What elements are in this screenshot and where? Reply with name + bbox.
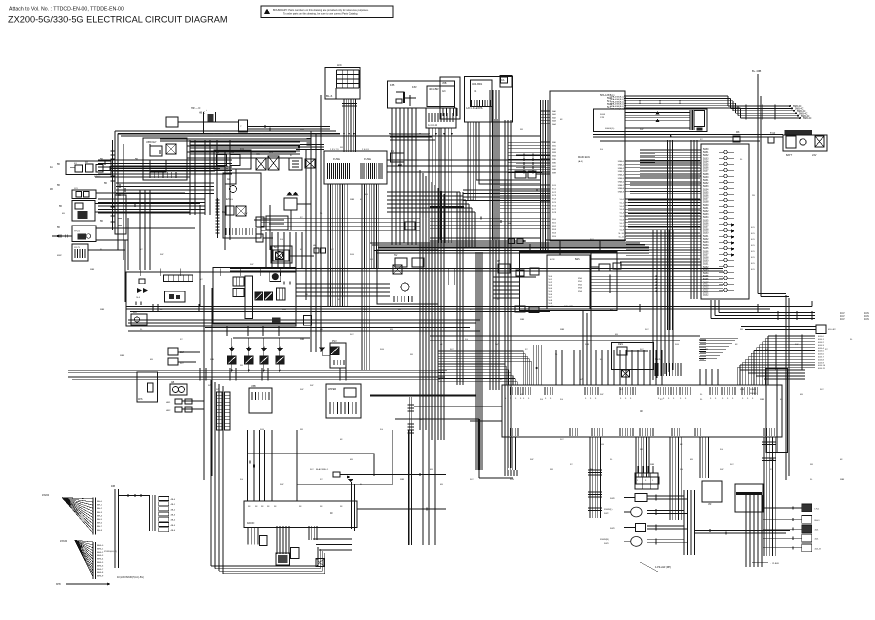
svg-text:To order parts on this drawing: To order parts on this drawing, be sure … xyxy=(283,13,358,16)
svg-text:BH6-1: BH6-1 xyxy=(97,548,104,550)
terminal left long verticals xyxy=(667,140,669,330)
svg-text:4CN: 4CN xyxy=(550,259,555,261)
svg-text:11173: 11173 xyxy=(74,247,81,249)
svg-text:BH-1: BH-1 xyxy=(97,505,103,507)
thick segment y207 xyxy=(430,206,464,208)
svg-text:5R: 5R xyxy=(240,365,243,367)
svg-text:5BR: 5BR xyxy=(400,479,405,481)
svg-text:4B-3: 4B-3 xyxy=(171,515,176,517)
small box under relay row xyxy=(225,169,236,184)
bundle under 404-BR hatchbox xyxy=(428,128,430,243)
svg-text:U5B: U5B xyxy=(442,83,447,85)
svg-text:5NB-9: 5NB-9 xyxy=(618,192,625,194)
right mid rect inner vertical xyxy=(776,369,778,453)
vertical bundle x505 xyxy=(504,120,506,468)
lamp row2 xyxy=(631,507,642,517)
pins of 404-BR1 xyxy=(471,100,473,107)
svg-text:5W9: 5W9 xyxy=(610,528,615,530)
junction dots on top bus xyxy=(186,133,188,135)
svg-text:5NB-5: 5NB-5 xyxy=(618,178,625,180)
junction ticks on top bundle xyxy=(639,95,640,96)
svg-text:BZ-1: BZ-1 xyxy=(274,247,280,249)
harness connector stack xyxy=(149,495,151,531)
svg-text:IP: IP xyxy=(290,154,293,157)
res cluster wires xyxy=(631,370,633,381)
wire row group A to terminal xyxy=(640,149,701,151)
svg-text:5R: 5R xyxy=(810,464,813,466)
svg-text:4LB-3: 4LB-3 xyxy=(818,345,825,347)
svg-text:ZX330: ZX330 xyxy=(60,540,68,543)
svg-text:5LY: 5LY xyxy=(450,349,454,351)
svg-text:5LB6: 5LB6 xyxy=(703,251,709,253)
svg-text:55W8(R): 55W8(R) xyxy=(600,539,609,541)
svg-text:5W8: 5W8 xyxy=(610,498,615,500)
box connector hatch under 404-BR xyxy=(426,108,456,128)
battery feed lines xyxy=(593,134,783,136)
svg-text:5LB: 5LB xyxy=(510,479,514,481)
ticks on bundle F xyxy=(762,441,776,443)
svg-text:5BR: 5BR xyxy=(90,269,95,271)
relay comp row1 xyxy=(635,494,647,502)
component 266,216 xyxy=(266,216,288,230)
main horizontal bus y268 xyxy=(230,268,723,270)
svg-text:5BR: 5BR xyxy=(300,339,305,341)
svg-text:5LB8: 5LB8 xyxy=(703,202,709,204)
svg-text:MSP: MSP xyxy=(57,255,62,257)
fuse panel pins group B xyxy=(360,163,362,179)
svg-text:5BR: 5BR xyxy=(560,329,565,331)
svg-text:5L-1: 5L-1 xyxy=(620,202,625,204)
wire bundle below 467 box xyxy=(489,119,491,240)
svg-text:ZX330(H,LC): ZX330(H,LC) xyxy=(104,551,117,553)
center vertical bundle x420 xyxy=(419,170,421,430)
svg-text:5LB0: 5LB0 xyxy=(703,233,709,235)
L corner rows feeding cab box group2 xyxy=(438,350,523,352)
svg-text:VR: VR xyxy=(708,503,712,506)
svg-text:5BR: 5BR xyxy=(585,344,590,346)
speaker dark box xyxy=(276,553,290,565)
svg-text:5G: 5G xyxy=(240,479,243,481)
svg-text:Attach to Vol. No. : TTDCD-EN-: Attach to Vol. No. : TTDCD-EN-00, TTDDE-… xyxy=(9,7,124,13)
wires into fuse panel left xyxy=(300,144,324,146)
wires stepping right to alternator labels xyxy=(728,105,790,107)
svg-text:F/B: F/B xyxy=(390,83,394,87)
pump left components xyxy=(139,279,145,284)
svg-text:5L10: 5L10 xyxy=(549,306,555,308)
radio pin group B xyxy=(276,526,278,554)
small box bottom right of pump xyxy=(304,316,312,326)
svg-text:5B: 5B xyxy=(104,183,107,185)
svg-text:4DL-B: 4DL-B xyxy=(815,548,822,550)
earth under blackbu comp xyxy=(349,479,353,482)
wires top center down to thick bar xyxy=(403,108,405,243)
svg-text:4B-4: 4B-4 xyxy=(171,520,176,522)
svg-text:5NB-6: 5NB-6 xyxy=(618,181,625,183)
box 404-BR1 outer xyxy=(465,77,513,123)
svg-text:5R: 5R xyxy=(260,145,263,147)
x comp below res xyxy=(622,370,630,377)
svg-text:5LY: 5LY xyxy=(730,464,734,466)
pump circle comp xyxy=(270,272,281,282)
svg-text:RADIO: RADIO xyxy=(247,522,254,525)
svg-text:5L-3: 5L-3 xyxy=(620,209,625,211)
wire row group D to terminal xyxy=(626,235,701,237)
small comp 10A cluster xyxy=(168,348,178,355)
svg-text:4F: 4F xyxy=(640,409,643,413)
svg-text:BH6-0: BH6-0 xyxy=(97,545,104,547)
svg-text:RES: RES xyxy=(618,343,623,346)
lamp row4 xyxy=(631,537,642,547)
wiper motor box xyxy=(326,384,361,418)
vertical bundle x477 dark xyxy=(475,252,477,470)
svg-text:W/S: W/S xyxy=(138,398,143,401)
feeder group3 with comp xyxy=(533,345,535,385)
wire bundle ECU right top xyxy=(624,95,728,97)
svg-text:5G: 5G xyxy=(380,429,383,431)
wire bundle below BL-6 xyxy=(343,99,345,152)
svg-text:55W8(L): 55W8(L) xyxy=(604,509,613,511)
right bottom connector boxes xyxy=(802,504,812,512)
left cluster extra wires xyxy=(190,141,300,143)
bus y268 risers to pump box xyxy=(139,269,141,277)
svg-text:4LB-1: 4LB-1 xyxy=(818,339,825,341)
svg-text:HB IC: HB IC xyxy=(199,113,205,115)
nested loop bottoms xyxy=(211,565,318,567)
upper fan connector xyxy=(92,498,94,535)
pump dark relay N2 xyxy=(265,292,273,300)
svg-text:5LB7: 5LB7 xyxy=(703,227,709,229)
bundle below cab C xyxy=(635,437,637,477)
ticks on bus y370 xyxy=(199,368,201,381)
bundle below cab A xyxy=(504,437,506,470)
svg-text:BATT: BATT xyxy=(786,154,793,157)
buzzer BZ-1 xyxy=(273,250,289,261)
svg-text:BH-6: BH-6 xyxy=(97,523,103,525)
nested loop right risers xyxy=(317,547,319,566)
lower fan connector xyxy=(92,542,94,579)
arrow connector y241 xyxy=(430,240,526,242)
svg-text:5LY: 5LY xyxy=(820,389,824,391)
svg-text:5LB: 5LB xyxy=(380,349,384,351)
junction dots vertical x311 xyxy=(310,145,311,146)
svg-text:5LB: 5LB xyxy=(675,344,679,346)
terminal strip circle column xyxy=(724,150,727,153)
svg-text:5PA-4SB(B-L): 5PA-4SB(B-L) xyxy=(610,108,624,111)
relay box RY2 with bus bar xyxy=(735,484,763,512)
radio right wires xyxy=(357,508,446,510)
svg-text:5G: 5G xyxy=(270,249,273,251)
svg-text:5LB3: 5LB3 xyxy=(703,242,709,244)
svg-text:BH-2: BH-2 xyxy=(97,508,103,510)
svg-text:5LB: 5LB xyxy=(350,254,354,256)
SUB ECU right wires xyxy=(590,266,599,268)
svg-text:5LB2: 5LB2 xyxy=(703,211,709,213)
svg-text:5BR: 5BR xyxy=(840,479,845,481)
ECU left pin stubs xyxy=(540,110,550,112)
svg-text:5G: 5G xyxy=(720,449,723,451)
sub ecu bottom connectors xyxy=(515,306,525,312)
harness lower fan xyxy=(75,540,93,542)
junction ticks on bus y307 xyxy=(152,304,154,312)
svg-text:HN2: HN2 xyxy=(166,410,171,412)
svg-text:5L-0: 5L-0 xyxy=(620,199,625,201)
svg-text:5LB: 5LB xyxy=(770,459,774,461)
svg-text:5LB: 5LB xyxy=(600,444,604,446)
svg-text:SV: SV xyxy=(394,254,398,257)
svg-text:5LB7: 5LB7 xyxy=(703,171,709,173)
svg-text:4LB-8: 4LB-8 xyxy=(818,359,825,361)
tick hatches on left verticals xyxy=(111,150,115,152)
junction dots on major buses xyxy=(239,268,241,270)
staircase rows group1 xyxy=(719,312,815,314)
inline connector pair y173 xyxy=(515,171,526,178)
wires below fuse panel xyxy=(327,184,329,208)
cab harness main box xyxy=(502,385,782,437)
svg-text:5BR: 5BR xyxy=(520,319,525,321)
svg-text:4LB-6: 4LB-6 xyxy=(818,354,825,356)
left edge verticals xyxy=(229,140,231,240)
upper left boxes 440,77 xyxy=(440,77,460,119)
pump tall strip xyxy=(245,276,253,319)
svg-text:5R: 5R xyxy=(640,449,643,451)
svg-text:5LB3: 5LB3 xyxy=(703,186,709,188)
svg-text:5LB5: 5LB5 xyxy=(703,248,709,250)
nested loop left verticals xyxy=(210,380,212,566)
fusible link box xyxy=(594,109,708,131)
svg-text:5LB2: 5LB2 xyxy=(703,155,709,157)
svg-text:PSV: PSV xyxy=(332,341,337,343)
lamp wire pairs to bundle xyxy=(647,495,684,497)
svg-text:HN1: HN1 xyxy=(166,402,171,404)
ladder connector column B xyxy=(225,392,231,430)
line y338 above solenoids xyxy=(233,337,310,339)
bus lines y320 xyxy=(128,319,480,321)
engine control box xyxy=(223,173,261,238)
verticals x362 to bus xyxy=(361,268,363,370)
wires below solenoids xyxy=(231,364,233,373)
svg-text:5NB-8: 5NB-8 xyxy=(618,188,625,190)
wire row group C to terminal xyxy=(628,199,701,201)
svg-text:5LB1: 5LB1 xyxy=(703,208,709,210)
wires above cab box from staircase xyxy=(699,369,701,385)
svg-text:U5B: U5B xyxy=(251,385,256,388)
long vertical bus right B+ xyxy=(757,74,759,294)
verticals between ecu and sub ecu xyxy=(529,244,531,250)
svg-text:5B: 5B xyxy=(57,227,60,229)
key line verticals x-204 upper xyxy=(199,205,201,306)
engine box pin hatch xyxy=(225,228,227,235)
svg-text:5LY: 5LY xyxy=(470,479,474,481)
svg-text:5LB4: 5LB4 xyxy=(703,189,709,191)
stepped risers right of radio xyxy=(351,482,353,529)
key switch pins xyxy=(149,172,151,178)
horizontal bus y370 xyxy=(68,369,447,371)
thick bar y395 xyxy=(370,395,476,397)
B+ corner to x786 xyxy=(758,293,786,295)
svg-text:5MB-4C: 5MB-4C xyxy=(803,118,812,120)
svg-text:5LB5: 5LB5 xyxy=(600,114,606,116)
center verticals 270-300 xyxy=(265,232,267,268)
L corner rows feeding cab box group1 xyxy=(438,363,505,365)
svg-text:5L-6: 5L-6 xyxy=(620,219,625,221)
mid verticals x311-321 xyxy=(310,131,312,352)
battery box xyxy=(783,135,827,151)
svg-text:5NB-3: 5NB-3 xyxy=(618,171,625,173)
relay right of sub ecu xyxy=(599,264,610,271)
svg-text:(A-5): (A-5) xyxy=(578,160,583,163)
svg-text:4B: 4B xyxy=(50,189,53,191)
key switch box xyxy=(143,138,187,180)
box E MSP xyxy=(72,244,88,261)
connector bundle bottom of terminal xyxy=(654,363,656,376)
svg-text:5BR: 5BR xyxy=(740,389,745,391)
L wire y419 step xyxy=(395,418,479,420)
svg-text:5LB2: 5LB2 xyxy=(703,267,709,269)
staircase rows group2 xyxy=(768,335,815,337)
x-box left of fuse panel xyxy=(305,159,315,168)
svg-text:4LB-10: 4LB-10 xyxy=(818,365,826,367)
radio pin group A xyxy=(247,528,249,545)
svg-text:5LB: 5LB xyxy=(260,429,264,431)
svg-text:BH6-5: BH6-5 xyxy=(97,562,104,564)
thick frame harness bar xyxy=(378,246,649,248)
svg-text:A-B C-D+E/MHL: A-B C-D+E/MHL xyxy=(466,107,484,110)
hatch column x700 xyxy=(699,339,706,341)
svg-text:5LY: 5LY xyxy=(310,469,314,471)
ECU right wire rows mid xyxy=(625,160,700,162)
pump top strip box xyxy=(163,275,192,282)
svg-text:5LB: 5LB xyxy=(700,359,704,361)
svg-text:5LB1: 5LB1 xyxy=(703,264,709,266)
wires below BR1 xyxy=(467,122,469,200)
svg-text:MAIN ECU: MAIN ECU xyxy=(578,156,590,159)
junction dots x490 xyxy=(492,129,493,130)
fuse panel pins group A xyxy=(327,163,329,179)
verticals x583-590 xyxy=(582,311,584,385)
harness parallel lines xyxy=(370,242,640,244)
svg-text:5LB0: 5LB0 xyxy=(703,149,709,151)
stepped wires right bottom xyxy=(740,369,805,371)
hatch ticks on x309 xyxy=(307,138,312,140)
wire row group E to terminal xyxy=(620,261,701,263)
svg-text:4LB-7: 4LB-7 xyxy=(818,357,825,359)
svg-text:M/O: M/O xyxy=(133,312,137,314)
vertical pair x409 xyxy=(409,397,411,545)
terminal strip outer box xyxy=(701,144,749,299)
svg-text:5LB3: 5LB3 xyxy=(703,270,709,272)
svg-text:5G: 5G xyxy=(680,469,683,471)
svg-text:5AE 5NB: 5AE 5NB xyxy=(564,305,574,308)
vertical bundle x457 xyxy=(456,192,458,385)
svg-text:5LB7: 5LB7 xyxy=(703,254,709,256)
svg-text:5LB4: 5LB4 xyxy=(703,161,709,163)
horn connectors xyxy=(175,399,182,404)
svg-text:5LB5: 5LB5 xyxy=(703,192,709,194)
upper small box 500,75 xyxy=(500,76,512,88)
pump hatch box pair xyxy=(233,277,244,286)
warning note box xyxy=(261,6,393,18)
svg-text:4LB-4: 4LB-4 xyxy=(818,348,825,350)
SUB ECU outer box xyxy=(520,251,618,311)
svg-text:5L-9: 5L-9 xyxy=(620,230,625,232)
vertical bundle x490 xyxy=(489,90,491,390)
svg-text:TP-01: TP-01 xyxy=(74,231,81,233)
ECU main block xyxy=(550,91,625,241)
svg-text:5LY: 5LY xyxy=(180,363,184,365)
svg-text:5L-8: 5L-8 xyxy=(620,226,625,228)
svg-text:HE: HE xyxy=(222,212,226,214)
svg-text:B&S: B&S xyxy=(575,259,580,261)
conn pairs right of pump xyxy=(282,281,284,284)
svg-text:5LB3: 5LB3 xyxy=(703,158,709,160)
pump dark box bottom xyxy=(272,317,281,322)
bundle below cab D xyxy=(669,437,671,520)
left cluster extra wires dense xyxy=(160,138,311,140)
rows to relay box xyxy=(741,326,816,328)
svg-text:4B-2: 4B-2 xyxy=(171,509,176,511)
svg-text:5R: 5R xyxy=(520,129,523,131)
right mid rectangle xyxy=(766,369,788,453)
tick column x216 xyxy=(217,198,219,238)
svg-text:5LB1: 5LB1 xyxy=(703,180,709,182)
junction dots terminal verticals xyxy=(669,154,670,155)
svg-text:4LB-2: 4LB-2 xyxy=(818,342,825,344)
extra horizontals y284-296 left xyxy=(296,283,390,285)
svg-text:5L-10: 5L-10 xyxy=(618,233,624,235)
bundle below cab E xyxy=(699,437,701,478)
svg-text:5LB8: 5LB8 xyxy=(703,285,709,287)
svg-text:5LB0: 5LB0 xyxy=(703,261,709,263)
svg-text:WS: WS xyxy=(269,151,273,154)
wire row group B to terminal xyxy=(630,182,701,184)
vertical x204 long xyxy=(203,285,205,480)
svg-text:ZX200-5G/330-5G ELECTRICAL CIR: ZX200-5G/330-5G ELECTRICAL CIRCUIT DIAGR… xyxy=(8,15,228,25)
fusible sub box xyxy=(694,111,705,127)
svg-text:5LB1: 5LB1 xyxy=(703,152,709,154)
bundle below cab F xyxy=(763,437,765,556)
svg-text:←PLB09: ←PLB09 xyxy=(770,563,780,565)
svg-text:FUSE: FUSE xyxy=(333,157,340,161)
svg-text:BH-7: BH-7 xyxy=(97,526,103,528)
svg-text:5LB4: 5LB4 xyxy=(703,217,709,219)
svg-text:5LY: 5LY xyxy=(330,249,334,251)
svg-text:4CV: 4CV xyxy=(840,318,845,321)
svg-text:4DL-R2: 4DL-R2 xyxy=(828,329,836,331)
svg-text:A/C: A/C xyxy=(442,90,446,93)
fusible hatch column xyxy=(689,110,691,130)
main horizontal bus y307 xyxy=(126,306,812,308)
horizontal bus y377 xyxy=(68,376,445,378)
extra wires around relay cluster center xyxy=(493,281,519,283)
svg-text:5W2: 5W2 xyxy=(604,513,609,515)
SUB ECU inner box xyxy=(547,255,590,309)
lighter box xyxy=(249,388,272,413)
svg-text:5LB4: 5LB4 xyxy=(703,273,709,275)
svg-text:5LY: 5LY xyxy=(560,439,564,441)
wires key switch right xyxy=(187,145,300,147)
svg-text:4LB-9: 4LB-9 xyxy=(818,362,825,364)
svg-text:5LB8: 5LB8 xyxy=(703,230,709,232)
radio aircon box xyxy=(244,501,357,528)
svg-text:4B-6: 4B-6 xyxy=(171,530,176,532)
relay box VR xyxy=(702,481,722,502)
svg-text:BH6-3: BH6-3 xyxy=(97,555,104,557)
svg-text:CA: CA xyxy=(501,79,505,82)
pump dark relay N1 xyxy=(255,292,263,300)
pump v-hatch pair xyxy=(276,288,285,300)
resistor below radio xyxy=(260,536,268,546)
comp box 291,547 xyxy=(291,548,300,559)
